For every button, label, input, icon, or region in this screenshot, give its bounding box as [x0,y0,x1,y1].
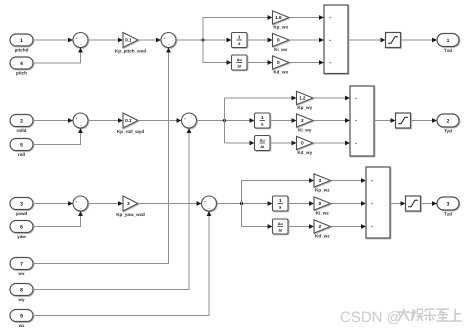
svg-text:Kp_wy: Kp_wy [297,105,312,110]
wire derivative wz to Kd_wz [288,224,314,229]
svg-text:−: − [80,123,83,128]
wire Kp_wz to sum block [331,178,367,183]
svg-text:0: 0 [319,201,322,206]
svg-text:−: − [168,43,171,48]
svg-text:wz: wz [18,323,25,328]
svg-text:0.1: 0.1 [125,38,131,43]
gain Ki_wx value 0 [273,33,290,51]
junction node wy error node [223,119,226,122]
wire derivative wy to Kd_wy [270,141,297,146]
svg-text:wy: wy [18,297,25,302]
wire sum 1a to Kp_pitch_wxd [88,38,123,43]
svg-text:Kp_roll_wyd: Kp_roll_wyd [117,129,144,134]
svg-text:+: + [355,119,358,124]
wire Kd_wz to sum block [331,224,367,229]
wire wz feedback to sum (wz error) [33,211,211,316]
integrator 1/s (wz) [273,196,289,211]
wire derivative wx to Kd_wx [247,60,273,65]
sum block PID sum (wy) [350,86,374,156]
sum junction S1b (wx error) [161,33,176,48]
svg-text:Tzd: Tzd [444,211,452,216]
svg-text:Δu: Δu [237,58,242,63]
wire sum 1b to integrator wx [176,38,232,43]
svg-text:CSDN @: CSDN @ [340,309,402,326]
gain Kd_wy value 0 [297,136,314,154]
wire node wz to derivative wz [242,224,273,229]
svg-text:Kd_wx: Kd_wx [273,69,288,74]
wire integrator wx to Ki_wx [247,38,273,43]
saturation Tzd limiter [406,196,421,211]
gain Kp_roll_wyd value 0.1 [117,113,144,134]
wire Ki_wy to sum block [313,118,350,123]
derivative du/dt (wz) [273,219,289,234]
svg-text:+: + [75,36,78,41]
svg-text:pitch: pitch [16,70,27,75]
gain Kp_wz value 3 [314,174,331,192]
gain Kd_wz value 2 [314,220,331,238]
wire sum 3a to Kp_yaw_wzd [88,201,123,206]
wire Kd_wx to sum block [289,60,324,65]
svg-text:0: 0 [277,38,280,43]
svg-text:0: 0 [301,141,304,146]
wire Ki_wx to sum block [289,38,324,43]
wire sum block to saturation Tyd [374,118,396,123]
svg-text:s: s [261,122,264,127]
sum junction S2b (wy error) [182,113,197,128]
svg-text:s: s [279,205,282,210]
gain Kp_wx value 1.6 [273,11,290,29]
svg-text:4: 4 [20,61,23,67]
svg-text:0: 0 [277,60,280,65]
svg-text:yaw: yaw [17,234,26,239]
wire Ki_wz to sum block [331,201,367,206]
sum block PID sum (wz) [366,167,390,238]
svg-text:Txd: Txd [444,48,452,53]
sum junction S1a (pitchd - pitch) [73,33,88,48]
svg-text:+: + [329,16,332,21]
svg-text:pitchd: pitchd [15,47,29,52]
inport 5 roll [10,139,33,157]
sum junction S3a (yawd - yaw) [73,196,88,211]
svg-text:6: 6 [20,224,23,230]
wire wx feedback to sum (wx error) [33,48,171,264]
svg-text:7: 7 [20,261,23,267]
wire node wy to derivative wy [225,141,255,146]
wire node wx to Kp_wx [203,15,273,20]
wire branch vertical at node wz [241,181,243,227]
wire sum 3b to integrator wz [217,201,273,206]
inport 7 wx [10,258,33,276]
wire saturation to Tzd [421,201,438,206]
watermark CSDN @大娱乐至上 [340,309,462,326]
wire sum 2a to Kp_roll_wyd [88,118,123,123]
svg-text:Δt: Δt [237,64,241,69]
svg-text:1: 1 [238,35,241,40]
svg-text:Kd_wy: Kd_wy [297,150,312,155]
wire saturation to Txd [401,38,438,43]
gain Kd_wx value 0 [273,56,290,74]
outport 1 Txd [437,34,459,53]
wire branch vertical at node wy [224,98,226,143]
svg-text:Ki_wy: Ki_wy [298,127,312,132]
svg-text:Ki_wz: Ki_wz [316,210,329,215]
svg-text:Kp_wx: Kp_wx [273,24,288,29]
svg-text:1: 1 [279,198,282,203]
svg-text:−: − [188,123,191,128]
junction node wx error node [201,38,204,41]
inport 4 pitch [10,57,33,75]
svg-text:−: − [80,206,83,211]
svg-text:1.2: 1.2 [299,96,305,101]
svg-text:−: − [208,206,211,211]
saturation Tyd limiter [396,113,411,128]
derivative du/dt (wx) [232,55,248,70]
svg-text:3: 3 [319,178,322,183]
wire integrator wy to Ki_wy [270,118,297,123]
svg-text:0.1: 0.1 [125,118,131,123]
wire sum block to saturation Txd [348,38,386,43]
svg-text:9: 9 [20,313,23,319]
wire wy feedback to sum (wy error) [33,128,191,290]
svg-text:1: 1 [447,38,450,44]
svg-text:1: 1 [261,115,264,120]
saturation Txd limiter [386,33,401,48]
wire integrator wz to Ki_wz [288,201,314,206]
wire branch vertical at node wx [202,18,204,63]
svg-text:3: 3 [20,201,23,207]
wire saturation to Tyd [411,118,438,123]
svg-text:+: + [75,200,78,205]
svg-text:+: + [329,61,332,66]
inport 1 pitchd [10,34,33,52]
wire roll feedback to sum 2a [33,128,83,145]
svg-text:1: 1 [20,38,23,44]
inport 3 yawd [10,198,33,216]
inport 8 wy [10,284,33,302]
svg-text:5: 5 [20,142,23,148]
wire sum 2b to integrator wy [197,118,255,123]
gain Kp_pitch_wxd value 0.1 [115,33,146,54]
outport 3 Tzd [437,197,459,216]
outport 2 Tyd [437,114,459,133]
wire node wx to derivative wx [203,60,232,65]
junction node wz error node [240,202,243,205]
gain Kp_yaw_wzd value 3 [116,196,145,217]
gain Ki_wy value 2 [297,114,314,132]
wire node wy to Kp_wy [225,96,297,101]
wire Kp_wx to sum block [289,15,324,20]
sum junction S2a (rolld - roll) [73,113,88,128]
svg-text:+: + [371,179,374,184]
svg-text:−: − [80,43,83,48]
svg-text:2: 2 [319,224,322,229]
svg-text:Δu: Δu [260,138,265,143]
wire yaw feedback to sum 3a [33,211,83,227]
svg-text:+: + [204,200,207,205]
svg-text:Tyd: Tyd [444,128,452,133]
svg-text:+: + [329,38,332,43]
svg-text:Kp_yaw_wzd: Kp_yaw_wzd [116,212,145,217]
svg-text:roll: roll [18,152,25,157]
svg-text:Kp_wz: Kp_wz [315,187,330,192]
svg-text:+: + [355,96,358,101]
wire sum block to saturation Tzd [390,201,406,206]
svg-text:8: 8 [20,287,23,293]
wire pitchd to sum 1a [33,38,73,43]
svg-text:+: + [355,141,358,146]
svg-text:Ki_wx: Ki_wx [274,47,288,52]
wire Kp_roll_wyd to sum 2b [138,118,182,123]
svg-text:+: + [163,36,166,41]
svg-text:1.6: 1.6 [275,15,281,20]
svg-text:2: 2 [20,118,23,124]
svg-text:rolld: rolld [17,128,27,133]
integrator 1/s (wy) [255,113,271,128]
svg-text:2: 2 [447,118,450,124]
svg-text:3: 3 [447,201,450,207]
wire Kp_pitch_wxd to sum 1b [138,38,161,43]
wire Kp_wy to sum block [313,96,350,101]
svg-text:Δt: Δt [278,228,282,233]
svg-text:Δt: Δt [260,145,264,150]
svg-text:+: + [371,225,374,230]
inport 9 wz [10,310,33,328]
svg-text:+: + [184,117,187,122]
wire yawd to sum 3a [33,201,73,206]
svg-text:Kd_wz: Kd_wz [315,233,330,238]
integrator 1/s (wx) [232,33,248,48]
svg-text:+: + [371,202,374,207]
inport 6 yaw [10,221,33,239]
sum block PID sum (wx) [324,5,348,74]
wire Kd_wy to sum block [313,141,350,146]
wire node wz to Kp_wz [242,178,315,183]
wire pitch feedback to sum 1a [33,48,83,64]
derivative du/dt (wy) [255,136,271,151]
svg-text:s: s [238,41,241,46]
svg-text:+: + [75,117,78,122]
gain Kp_wy value 1.2 [297,91,314,109]
svg-text:yawd: yawd [16,211,27,216]
svg-text:3: 3 [127,201,130,206]
svg-text:Δu: Δu [278,222,283,227]
wire rolld to sum 2a [33,118,73,123]
svg-text:Kp_pitch_wxd: Kp_pitch_wxd [115,49,146,54]
inport 2 rolld [10,115,33,133]
wire Kp_yaw_wzd to sum 3b [138,201,202,206]
svg-text:2: 2 [301,118,304,123]
sum junction S3b (wz error) [202,196,217,211]
svg-text:wx: wx [18,271,25,276]
gain Ki_wz value 0 [314,197,331,215]
